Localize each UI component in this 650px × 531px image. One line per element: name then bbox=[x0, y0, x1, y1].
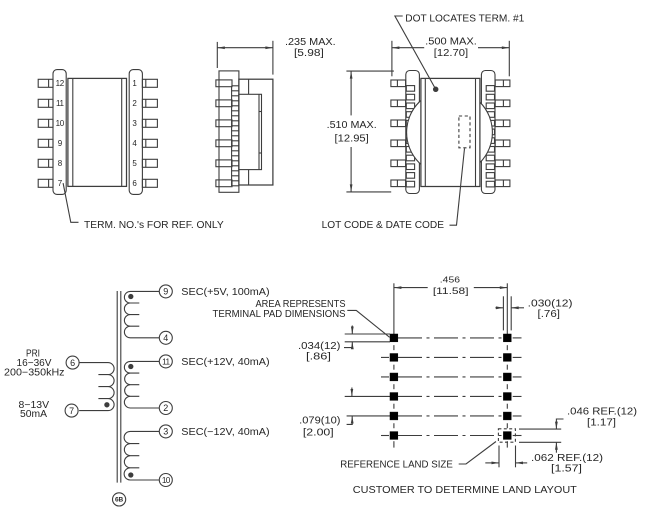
dimension .510 MAX bottom extension line bbox=[346, 191, 391, 193]
svg-text:4: 4 bbox=[163, 333, 168, 343]
transformer T1 core line left bbox=[116, 291, 118, 483]
view B - pin tail ladder left rail bbox=[231, 86, 233, 186]
view A - right pin 3 bbox=[142, 119, 157, 127]
dimension .034 pad top edge extension line bbox=[345, 333, 390, 335]
primary winding (pins 6-7) bbox=[79, 363, 114, 411]
dimension .046 bottom edge extension line bbox=[519, 441, 561, 443]
land pattern - row 5 centerline dash-dot bbox=[398, 415, 503, 417]
reference land size dashed box bbox=[498, 429, 515, 442]
view A - left pin 11 bbox=[38, 99, 53, 107]
land pattern - left pad 6 bbox=[390, 432, 398, 440]
view C - body outline bbox=[421, 78, 480, 186]
view A - left pin 7 bbox=[38, 179, 53, 187]
land pattern - left column centerline bbox=[393, 283, 395, 334]
land pattern - left pad 5 bbox=[390, 412, 398, 420]
svg-text:6B: 6B bbox=[115, 497, 124, 504]
svg-text:[5.98]: [5.98] bbox=[294, 48, 324, 59]
transformer T1 core line right bbox=[120, 291, 122, 483]
secondary winding 3 (pins 3-10) bbox=[124, 431, 159, 480]
land pattern - row 3 centerline dash-dot bbox=[398, 376, 503, 378]
secondary 2 polarity dot bbox=[129, 364, 133, 368]
view C - left pin tails bbox=[406, 86, 414, 92]
svg-text:3: 3 bbox=[163, 427, 168, 437]
dimension .030 left edge extension line bbox=[502, 296, 504, 330]
land pattern - right pad 4 bbox=[503, 393, 511, 401]
schematic revision marker 6B circle bbox=[113, 493, 126, 506]
leader for REFERENCE LAND SIZE bbox=[459, 442, 496, 465]
svg-text:9: 9 bbox=[58, 139, 63, 148]
view A - right pin 2 bbox=[142, 99, 157, 107]
svg-text:2: 2 bbox=[132, 99, 137, 108]
view A - right pin 4 bbox=[142, 139, 157, 147]
svg-text:[.76]: [.76] bbox=[538, 309, 561, 320]
view B - body top step notch bbox=[248, 79, 250, 94]
view A - right pin 5 bbox=[142, 159, 157, 167]
svg-text:SEC(+12V, 40mA): SEC(+12V, 40mA) bbox=[181, 357, 269, 368]
svg-text:CUSTOMER TO DETERMINE LAND LAY: CUSTOMER TO DETERMINE LAND LAYOUT bbox=[353, 485, 577, 496]
dimension .235 MAX left extension line bbox=[216, 42, 218, 68]
view C - lot code dashed box bbox=[459, 116, 470, 148]
view B - pin head 2 bbox=[216, 100, 232, 107]
view A - body outline bbox=[68, 78, 127, 186]
view A - left pin 10 bbox=[38, 119, 53, 127]
view C - right pin 6 bbox=[495, 180, 510, 187]
svg-text:1: 1 bbox=[132, 79, 137, 88]
svg-text:.456: .456 bbox=[440, 275, 461, 285]
svg-text:.046 REF.(12): .046 REF.(12) bbox=[567, 407, 637, 418]
land pattern - right pad 5 bbox=[503, 412, 511, 420]
view C - right pin 2 bbox=[495, 100, 510, 107]
view C - right pin 3 bbox=[495, 120, 510, 127]
land pattern - left pad 4 bbox=[390, 393, 398, 401]
view C - left pin 7 bbox=[391, 180, 406, 187]
schematic terminal 3 bbox=[159, 425, 172, 438]
svg-text:DOT LOCATES TERM. #1: DOT LOCATES TERM. #1 bbox=[405, 14, 524, 25]
land pattern - row 1 centerline dash-dot bbox=[398, 337, 503, 339]
dimension .046 top edge extension line bbox=[519, 428, 561, 430]
view A - body inner right edge line bbox=[121, 78, 123, 186]
land pattern - row 6 centerline dash-dot bbox=[398, 435, 503, 437]
svg-text:11: 11 bbox=[162, 357, 170, 366]
view C - right terminal strip bbox=[481, 71, 495, 194]
view B - pin head 6 bbox=[216, 180, 232, 187]
schematic terminal 7 bbox=[65, 404, 78, 417]
svg-text:.079(10): .079(10) bbox=[299, 416, 340, 427]
view B - pin head 4 bbox=[216, 140, 232, 147]
svg-text:[.86]: [.86] bbox=[306, 352, 331, 363]
secondary winding 2 (pins 11-2) bbox=[124, 361, 159, 408]
view B - body outline bbox=[239, 79, 273, 185]
schematic terminal 10 bbox=[159, 474, 172, 487]
svg-text:11: 11 bbox=[56, 99, 65, 108]
svg-text:200−350kHz: 200−350kHz bbox=[4, 367, 65, 378]
dimension .079 arrows and elbow bbox=[351, 388, 353, 397]
view C - left pin 11 bbox=[391, 100, 406, 107]
view A - leader line to terminal note bbox=[63, 183, 78, 222]
svg-text:12: 12 bbox=[56, 79, 65, 88]
schematic terminal 6 bbox=[66, 356, 79, 369]
svg-text:5: 5 bbox=[132, 159, 137, 168]
leader for DOT LOCATES TERM. #1 bbox=[395, 16, 435, 88]
leader for LOT CODE & DATE CODE bbox=[450, 149, 465, 226]
secondary 3 polarity dot bbox=[129, 473, 133, 477]
view A - right pin 1 bbox=[142, 79, 157, 87]
dimension .079 row5 centerline extension bbox=[347, 415, 390, 417]
view B - body bottom step notch bbox=[248, 170, 250, 185]
leader for AREA REPRESENTS note bbox=[347, 310, 389, 337]
view B - pin tail ladder rungs bbox=[232, 85, 239, 87]
dimension .062 left edge extension line bbox=[498, 446, 500, 468]
svg-text:.510 MAX.: .510 MAX. bbox=[327, 120, 377, 131]
svg-text:[12.70]: [12.70] bbox=[434, 48, 469, 59]
dimension .500 MAX dimension line bbox=[392, 47, 424, 49]
land pattern - right pad 1 bbox=[503, 334, 511, 342]
dimension .235 MAX dimension line bbox=[217, 47, 273, 49]
view B - pin head 1 bbox=[216, 80, 232, 87]
dimension .235 MAX right extension line bbox=[272, 41, 274, 75]
svg-text:[11.58]: [11.58] bbox=[433, 286, 469, 296]
dimension .034 arrows and elbow bbox=[351, 326, 353, 335]
svg-text:50mA: 50mA bbox=[20, 409, 47, 420]
view B - bobbin edge tick upper bbox=[259, 111, 262, 113]
dimension .500 MAX right extension line bbox=[508, 41, 510, 77]
land pattern - right column centerline bbox=[506, 283, 508, 334]
svg-text:[12.95]: [12.95] bbox=[335, 133, 370, 144]
view B side view - terminal strip bbox=[219, 71, 239, 192]
dimension .062 arrows bbox=[485, 462, 499, 464]
view A - left pin 9 bbox=[38, 139, 53, 147]
schematic terminal 2 bbox=[159, 402, 172, 415]
svg-text:LOT CODE & DATE CODE: LOT CODE & DATE CODE bbox=[322, 220, 445, 231]
secondary 1 polarity dot bbox=[129, 294, 133, 298]
view B - pin head 3 bbox=[216, 120, 232, 127]
svg-text:6: 6 bbox=[70, 358, 75, 368]
view A - left pin 8 bbox=[38, 159, 53, 167]
view C - left pin 10 bbox=[391, 120, 406, 127]
view A - right terminal strip bbox=[129, 70, 142, 195]
svg-text:9: 9 bbox=[163, 287, 168, 297]
svg-text:SEC(−12V, 40mA): SEC(−12V, 40mA) bbox=[181, 427, 269, 438]
svg-text:.500 MAX.: .500 MAX. bbox=[425, 37, 477, 48]
land pattern - left pad 2 bbox=[390, 354, 398, 362]
view C - terminal 1 locator dot bbox=[434, 87, 438, 91]
secondary winding 1 (pins 9-4) bbox=[124, 291, 159, 337]
svg-text:[1.57]: [1.57] bbox=[551, 464, 582, 475]
land pattern - left pad 1 bbox=[390, 334, 398, 342]
view B - bobbin plate outline bbox=[239, 94, 262, 169]
view A top view - left terminal strip bbox=[53, 70, 66, 195]
dimension .034 pad bottom edge extension line bbox=[345, 341, 390, 343]
view A - left pin 12 bbox=[38, 79, 53, 87]
svg-text:TERMINAL PAD DIMENSIONS: TERMINAL PAD DIMENSIONS bbox=[213, 309, 346, 320]
view C - round core circle bbox=[407, 89, 493, 175]
schematic terminal 4 bbox=[159, 331, 172, 344]
svg-text:SEC(+5V, 100mA): SEC(+5V, 100mA) bbox=[181, 287, 269, 298]
svg-text:[2.00]: [2.00] bbox=[303, 428, 334, 439]
svg-text:6: 6 bbox=[132, 179, 137, 188]
svg-text:10: 10 bbox=[162, 476, 171, 485]
svg-text:TERM. NO.'s FOR REF. ONLY: TERM. NO.'s FOR REF. ONLY bbox=[84, 220, 224, 231]
dimension .062 right edge extension line bbox=[515, 446, 517, 468]
land pattern - right pad 6 bbox=[503, 432, 511, 440]
dimension .030 right edge extension line bbox=[510, 296, 512, 330]
view C - right pin 4 bbox=[495, 140, 510, 147]
svg-text:3: 3 bbox=[132, 119, 137, 128]
schematic terminal 9 bbox=[159, 285, 172, 298]
dimension .456 dimension line bbox=[394, 287, 428, 289]
land pattern - left pad 3 bbox=[390, 373, 398, 381]
dimension .030 arrows bbox=[495, 307, 503, 309]
view C - body inner right edge line bbox=[475, 78, 477, 186]
land pattern - row 4 centerline dash-dot bbox=[398, 395, 503, 397]
svg-text:.235 MAX.: .235 MAX. bbox=[285, 37, 336, 48]
view C - right pin 5 bbox=[495, 160, 510, 167]
dimension .079 row4 centerline extension bbox=[345, 395, 390, 397]
view C - left pin 9 bbox=[391, 140, 406, 147]
view C - body inner left edge line bbox=[424, 78, 426, 186]
dimension .046 arrows and elbow bbox=[556, 419, 563, 429]
primary polarity dot bbox=[105, 403, 109, 407]
dimension .510 MAX dimension line bbox=[350, 71, 352, 115]
view B - bobbin edge tick lower bbox=[259, 152, 262, 154]
svg-text:10: 10 bbox=[56, 119, 65, 128]
dimension .500 MAX left extension line bbox=[391, 41, 393, 77]
land pattern - right pad 2 bbox=[503, 354, 511, 362]
land pattern - right pad 3 bbox=[503, 373, 511, 381]
view B - bobbin doubled edge line bbox=[258, 94, 260, 169]
view B - pin head 5 bbox=[216, 160, 232, 167]
svg-text:.034(12): .034(12) bbox=[298, 341, 340, 352]
view C - left pin 12 bbox=[391, 80, 406, 87]
svg-text:.062 REF.(12): .062 REF.(12) bbox=[531, 453, 603, 464]
view A - body inner left edge line bbox=[72, 78, 74, 186]
view C bottom view - left terminal strip bbox=[406, 71, 420, 194]
land pattern - row 2 centerline dash-dot bbox=[398, 356, 503, 358]
svg-text:8: 8 bbox=[58, 159, 63, 168]
dimension .510 MAX top extension line bbox=[346, 70, 394, 72]
svg-text:REFERENCE LAND SIZE: REFERENCE LAND SIZE bbox=[340, 460, 453, 471]
view A - right pin 6 bbox=[142, 179, 157, 187]
svg-text:4: 4 bbox=[132, 139, 137, 148]
svg-text:2: 2 bbox=[163, 403, 168, 413]
svg-text:7: 7 bbox=[58, 179, 63, 188]
view C - right pin 1 bbox=[495, 80, 510, 87]
schematic terminal 11 bbox=[159, 355, 172, 368]
view C - right pin tails bbox=[486, 86, 494, 92]
svg-text:[1.17]: [1.17] bbox=[587, 418, 616, 429]
view C - left pin 8 bbox=[391, 160, 406, 167]
svg-text:7: 7 bbox=[69, 406, 74, 416]
